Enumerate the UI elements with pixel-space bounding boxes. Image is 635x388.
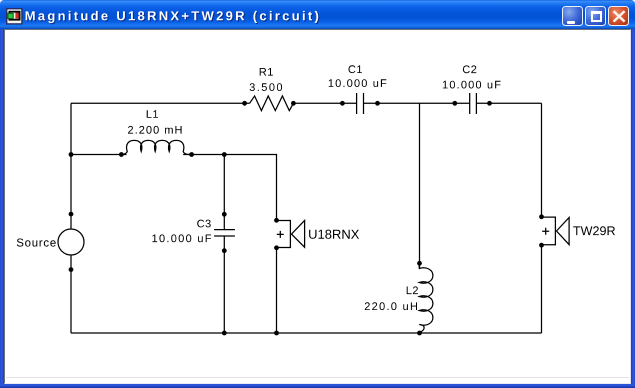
label 10.000 uF at (327.9-387.9) [329, 79, 387, 87]
label Source at (16.3-56.9) [17, 239, 56, 247]
node dot TW29R bottom [539, 243, 544, 248]
node dot U18RNX bottom rail [274, 331, 279, 336]
inductor L1 bumps [121, 140, 191, 154]
label 10.000 uF at (151.6-212.8) [152, 234, 211, 242]
node dot L1 right [189, 152, 194, 157]
capacitor C1 plates [357, 93, 364, 114]
speaker U18RNX frame [277, 221, 291, 248]
wire L1 row left [71, 154, 127, 156]
speaker TW29R cone [557, 218, 570, 245]
inductor L2 loops [419, 263, 433, 333]
node dot C3 lower [222, 248, 227, 253]
resistor R1 zigzag [250, 96, 294, 111]
source circle [58, 229, 84, 255]
title bar [0, 0, 635, 29]
node dot L1 junction left [69, 152, 74, 157]
wire C3 branch upper [223, 155, 225, 230]
wire L1 to corner and down to U18RNX [183, 155, 276, 221]
wire top rail R1 to C1 [293, 102, 356, 104]
label L1 at (145.8-159.0) [147, 110, 158, 118]
label C2 at (462.3-477.3) [463, 65, 476, 73]
window icon [6, 8, 24, 26]
wire left vertical upper [70, 103, 72, 229]
wire top rail C1 to C2 [364, 102, 470, 104]
wire U18RNX to bottom rail [276, 248, 278, 333]
node dot C3 bottom rail [222, 331, 227, 336]
wire C3 branch lower [223, 236, 225, 333]
wire bottom rail [71, 332, 542, 334]
speaker TW29R frame [542, 217, 556, 245]
node dot L2 bottom rail [417, 331, 422, 336]
wire right vertical upper [541, 103, 543, 217]
close button [608, 6, 629, 26]
node dot C1 left [340, 101, 345, 106]
node dot U18RNX bottom [274, 245, 279, 250]
title text [26, 11, 319, 23]
node dot C3 upper [222, 212, 227, 217]
label U18RNX at (308.1-359.4) [309, 230, 359, 239]
capacitor C2 plates [470, 93, 477, 114]
wire top rail C2 to right corner [476, 102, 541, 104]
label TW29R at (572.9-615.6) [573, 226, 615, 235]
label 2.200 mH at (127.5-183.5) [128, 126, 182, 134]
title text shadow [27, 12, 320, 24]
faint inner edge line [6, 377, 629, 378]
node dot C1 right [375, 101, 380, 106]
wire top rail left segment [71, 102, 250, 104]
node dot L1 left [119, 152, 124, 157]
label C1 at (347.9-362.9) [349, 65, 362, 73]
label C3 at (196.7-211.7) [197, 220, 211, 228]
window borders [0, 29, 4, 384]
node dot source top [69, 212, 74, 217]
node dot L2 top [417, 261, 422, 266]
node dot C2 right [487, 101, 492, 106]
wire L2 vertical from top rail [419, 103, 421, 267]
label 10.000 uF at (442.1-502.1) [443, 81, 501, 89]
label 3.500 at (249.2-284.0) [250, 83, 283, 91]
node dot source bottom [69, 267, 74, 272]
node dot C3 top junction [222, 152, 227, 157]
label L2 at (405.8-418.9) [407, 286, 418, 294]
wire left vertical lower [70, 255, 72, 333]
maximize button [585, 6, 606, 26]
speaker U18RNX cone [292, 220, 305, 247]
node dot U18RNX top [274, 218, 279, 223]
wire right vertical lower [541, 245, 543, 333]
minimize button [562, 6, 583, 26]
node dot C2 left [452, 101, 457, 106]
label 220.0 uH at (364.2-419.2) [365, 302, 417, 310]
node dot R1 right [291, 101, 296, 106]
node dot R1 left [242, 101, 247, 106]
label R1 at (258.8-273.8) [260, 68, 273, 76]
speaker U18RNX plus [277, 231, 284, 238]
node dot TW29R top [539, 214, 544, 219]
speaker TW29R plus [542, 228, 549, 235]
capacitor C3 plates [214, 230, 235, 236]
